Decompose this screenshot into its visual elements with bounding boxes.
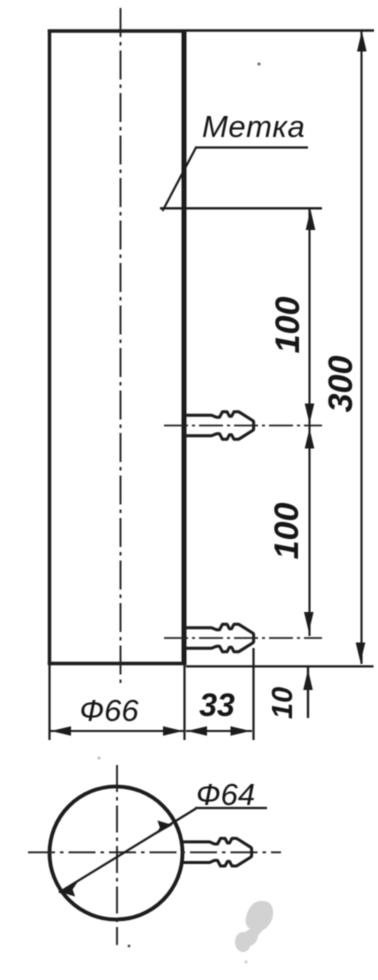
svg-text:Меmка: Меmка — [202, 109, 305, 144]
arrow down at barb1 centerline — [305, 404, 315, 424]
extension line below left edge (Ф66) — [48, 664, 50, 740]
barb fitting 3 (end view hose nipple) — [180, 838, 252, 866]
barb fitting 2 (lower hose nipple, side view) — [184, 624, 254, 652]
svg-text:Ф66: Ф66 — [79, 693, 139, 728]
arrow right (Ф66) — [163, 726, 183, 735]
circle vertical centerline — [116, 765, 118, 945]
svg-text:Ф64: Ф64 — [196, 777, 255, 812]
arrow lower-left (Ф64) — [60, 882, 78, 896]
scan speck bottom — [128, 945, 131, 948]
main vertical centerline (dash-dot) — [120, 8, 122, 686]
scan artifact grey blob — [241, 901, 273, 946]
tube body right edge (thick visible contour) — [182, 30, 187, 666]
svg-text:300: 300 — [322, 356, 360, 413]
tube body left edge (side view outline) — [48, 30, 51, 664]
leader diagonal from label to mark — [163, 148, 197, 212]
svg-text:100: 100 — [268, 503, 306, 560]
arrow left (Ф66) — [51, 726, 71, 735]
label underline Ф64 — [195, 807, 267, 809]
dimension line 300 (vertical at x=361.5) — [360, 31, 362, 664]
arrow down at barb2 centerline — [304, 612, 314, 632]
dimension line Ф66 — [50, 730, 184, 732]
arrow down at bottom extension (300) — [356, 643, 366, 663]
dimension line 33 — [186, 730, 252, 732]
extension line from top edge to 300 dimension — [186, 29, 374, 32]
barb fitting 1 (upper hose nipple, side view) — [184, 412, 254, 440]
10 dimension arrow shaft below bottom line — [307, 666, 309, 718]
arrow left (33) — [187, 726, 207, 735]
mark (метка) line on tube at y=208 with extension to dimension line — [160, 207, 322, 209]
arrow up at mark line — [306, 210, 316, 231]
tube body top edge — [48, 29, 186, 32]
circle (end view of tube) — [50, 787, 183, 920]
scan speck top — [257, 62, 260, 65]
scan speck faint — [244, 960, 248, 964]
circle horizontal centerline — [28, 851, 281, 853]
leader underline of label Метка — [195, 146, 308, 148]
arrow up at top edge (300) — [357, 31, 367, 52]
svg-text:10: 10 — [267, 687, 299, 719]
scan speck faint left — [98, 757, 101, 760]
scan artifact small grey spot — [235, 932, 251, 952]
extension line below right edge (Ф66/33) — [183, 665, 185, 740]
barb 2 centerline (dash-dot) — [164, 637, 322, 639]
dimension line 100+100 (vertical chain at x=309.5) — [308, 209, 310, 636]
extension line below barb2 tip (33) — [252, 648, 254, 740]
arrow right (33) — [231, 726, 251, 735]
barb 1 centerline (dash-dot) — [164, 425, 322, 427]
diameter dimension line Ф64 (diagonal) — [59, 809, 196, 893]
arrow up to bottom extension (10) — [303, 670, 313, 691]
arrow upper-right (Ф64) — [155, 821, 173, 835]
svg-text:33: 33 — [199, 687, 235, 723]
svg-text:100: 100 — [269, 297, 307, 354]
tube body bottom edge — [48, 662, 186, 665]
bottom extension line to 300/10 dimensions — [186, 665, 374, 667]
arrow up below barb1 centerline — [305, 429, 315, 449]
